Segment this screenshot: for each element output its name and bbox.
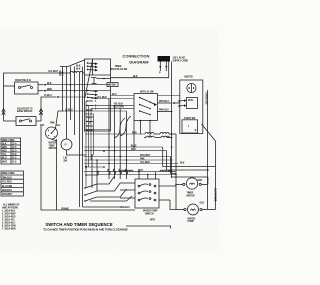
water temperature switch block: [135, 179, 159, 208]
run winding box: [187, 98, 198, 109]
BLK labels at timer left: [76, 66, 81, 71]
unbalance switch: [17, 108, 33, 114]
svg-text:BLK: BLK: [76, 66, 81, 68]
svg-text:AWG PATTERN: AWG PATTERN: [2, 207, 18, 210]
wire from temp rotary down: [56, 139, 58, 210]
wire BLK from timer to cord: [111, 62, 169, 78]
svg-text:2. 18GA-WHT: 2. 18GA-WHT: [2, 213, 16, 216]
wire y174.5: [98, 174, 176, 176]
svg-text:RED-BLU: RED-BLU: [2, 190, 12, 192]
timer cam diagonal: [85, 60, 93, 98]
lower contacts inside assembly: [84, 187, 86, 189]
timer switch block: [84, 59, 110, 131]
svg-text:PUMP: PUMP: [188, 221, 195, 223]
svg-text:WTR-BLU: WTR-BLU: [159, 101, 170, 103]
svg-text:ALL WIRING OF: ALL WIRING OF: [3, 204, 20, 207]
line under sequence text: [126, 226, 171, 229]
vertical bundle from timer left area: [62, 67, 64, 112]
coil wiggles on WHT wire: [121, 170, 133, 172]
svg-text:RED: RED: [2, 151, 7, 153]
second coil wire y137: [146, 136, 154, 137]
svg-text:ADJACENT TO: ADJACENT TO: [17, 108, 33, 111]
svg-text:TEMP: TEMP: [49, 145, 56, 147]
svg-text:FRAME: FRAME: [61, 207, 69, 210]
svg-text:1. 18GA-BLK: 1. 18GA-BLK: [2, 210, 16, 213]
svg-text:GLD: GLD: [200, 203, 205, 205]
wire WTR-BLU from level switch to motor: [157, 102, 171, 104]
svg-text:DOOR PLUG SW: DOOR PLUG SW: [110, 69, 128, 71]
svg-text:YEL-WHT: YEL-WHT: [48, 71, 59, 73]
timer motor: [186, 178, 197, 189]
wire from rotary to LT-BLU: [56, 111, 65, 129]
svg-text:BLU: BLU: [2, 158, 7, 160]
ground arrow left: [3, 86, 5, 108]
svg-text:RED-BLU: RED-BLU: [120, 207, 130, 209]
timer contacts upper: [87, 62, 98, 71]
svg-text:TIMER: TIMER: [187, 193, 194, 195]
svg-text:RED: RED: [198, 180, 203, 182]
notes legend: [2, 204, 20, 231]
timer label: [110, 66, 128, 71]
right bus far: [215, 141, 217, 210]
center vertical bundle: [108, 99, 110, 180]
switch and timer sequence band: [43, 222, 128, 231]
junction dots left bundle: [62, 72, 76, 112]
water pump: [188, 204, 199, 215]
svg-text:FILL: FILL: [56, 125, 61, 127]
down arrow on wire at x86: [85, 166, 87, 170]
wires water temp switch to right: [159, 185, 176, 187]
svg-text:WATER: WATER: [188, 217, 196, 220]
svg-text:SWITCH: SWITCH: [145, 213, 154, 215]
svg-text:BRN: BRN: [47, 89, 52, 91]
svg-text:OVERLOAD: OVERLOAD: [205, 92, 208, 105]
svg-text:SWITCH AND TIMER SEQUENCE: SWITCH AND TIMER SEQUENCE: [45, 222, 112, 227]
svg-text:BASE SWITCH: BASE SWITCH: [17, 110, 33, 113]
svg-text:4. 18GA-YEL: 4. 18GA-YEL: [2, 219, 16, 222]
terminal ladder verticals: [85, 101, 87, 188]
svg-text:WIRE CODE: WIRE CODE: [2, 140, 15, 142]
motor to right bus diagonal: [202, 124, 216, 141]
svg-text:BLK: BLK: [59, 74, 64, 76]
svg-text:BLK: BLK: [133, 76, 138, 78]
curved elbows center: [114, 118, 125, 138]
svg-text:YEL-RED: YEL-RED: [2, 182, 12, 184]
svg-text:RUN: RUN: [188, 100, 193, 102]
timer terminal column: [86, 100, 93, 130]
svg-text:TIMER: TIMER: [115, 66, 122, 68]
svg-text:LID: LID: [64, 158, 68, 160]
coil wiggles on wires near x150 y134: [145, 133, 154, 135]
svg-text:PUR: PUR: [132, 132, 137, 134]
svg-text:WHT: WHT: [2, 161, 8, 163]
wiggles on verticals: [108, 169, 110, 174]
svg-text:MOTOR: MOTOR: [187, 195, 196, 197]
svg-text:PNK: PNK: [50, 123, 55, 125]
circle component B: [61, 139, 72, 150]
svg-text:CLOCKWISE: CLOCKWISE: [214, 188, 216, 202]
ground arrow right: [39, 108, 42, 116]
boxed label LID SW: [107, 83, 118, 87]
wires lower box to water temp switch: [120, 182, 135, 184]
svg-text:SUPPLY CORD: SUPPLY CORD: [173, 61, 189, 63]
junction dots center bundle: [91, 133, 172, 178]
svg-text:YEL: YEL: [2, 154, 7, 156]
svg-text:PUR-WHT: PUR-WHT: [2, 194, 13, 196]
svg-text:BLK: BLK: [180, 162, 185, 164]
svg-text:CONNECTION: CONNECTION: [122, 53, 149, 58]
title block CONNECTION DIAGRAM: [122, 53, 149, 64]
svg-text:MOTOR: MOTOR: [185, 76, 194, 78]
svg-text:WATER: WATER: [49, 142, 57, 145]
wtr box left edge drop: [133, 121, 135, 148]
frame wire: [41, 126, 135, 211]
supply cord plug: [158, 56, 171, 62]
svg-text:DIAGRAM: DIAGRAM: [129, 59, 148, 64]
svg-text:BLK: BLK: [76, 69, 81, 71]
wire stub to cam diagonal: [60, 66, 68, 68]
svg-text:START SW: START SW: [184, 117, 196, 120]
svg-text:BLK: BLK: [2, 144, 7, 146]
svg-text:6. 18GA-GRN: 6. 18GA-GRN: [2, 225, 16, 228]
wire code table 2: [1, 171, 23, 196]
svg-text:7. 18GA-BRN: 7. 18GA-BRN: [2, 228, 16, 231]
lid switch leads BLK / BRN: [38, 84, 43, 86]
water temp rotary switch: [40, 123, 61, 128]
right column wires: [163, 147, 216, 167]
timer internal contact T: [91, 78, 97, 84]
supply cord leads: [159, 62, 161, 72]
wire code table 1: [1, 138, 21, 164]
svg-text:PNK-BLU: PNK-BLU: [2, 177, 12, 179]
svg-text:TO CHANGE TIMER POSITION PUSH: TO CHANGE TIMER POSITION PUSH KNOB IN AN…: [43, 228, 128, 231]
lower assembly bottom: [83, 206, 121, 208]
timer contacts lower: [87, 90, 98, 100]
fan wires lower assembly to verticals: [97, 176, 115, 184]
crossover loops: [70, 71, 84, 73]
svg-text:3. 18GA-RED: 3. 18GA-RED: [2, 216, 16, 219]
start winding box: [182, 120, 198, 133]
svg-text:115 V. 60 HZ.: 115 V. 60 HZ.: [173, 58, 186, 60]
svg-text:5. 18GA-BLU: 5. 18GA-BLU: [2, 222, 16, 225]
svg-text:BRN: BRN: [2, 147, 7, 149]
svg-text:WIRE CODE: WIRE CODE: [2, 173, 15, 175]
wire YEL-WHT top: [4, 73, 71, 86]
extra terminal cluster: [85, 166, 87, 168]
svg-text:WTR: WTR: [150, 220, 155, 222]
svg-text:WATER TEMP: WATER TEMP: [143, 210, 158, 213]
water temp box top stubs: [138, 172, 140, 179]
wire LT-BLU lower: [41, 97, 56, 121]
svg-text:BLK: BLK: [47, 83, 52, 85]
svg-text:LT-BLU: LT-BLU: [44, 95, 52, 97]
right bus vertical: [171, 62, 173, 178]
svg-text:BLU-GRN: BLU-GRN: [2, 186, 12, 188]
